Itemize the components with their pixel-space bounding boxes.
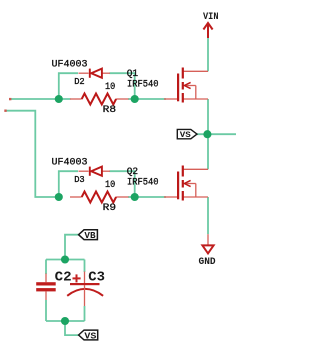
wire Q2 source to GND [207,197,209,234]
svg-text:10: 10 [105,82,115,93]
svg-text:D2: D2 [74,77,85,87]
svg-text:R8: R8 [103,105,116,116]
wire VIN to Q1 drain [207,38,209,71]
net label VB [79,230,98,241]
svg-text:10: 10 [105,180,115,191]
wire D2 branch left [59,73,78,99]
junction row1 right [131,95,139,103]
junction cap bottom [61,317,69,325]
svg-text:D3: D3 [74,175,85,185]
svg-text:R9: R9 [103,203,116,214]
svg-text:C2: C2 [55,269,72,285]
junction row1 left [55,95,63,103]
transistor Q2 [164,169,208,197]
net label VS bottom [79,330,98,341]
diode D2 [79,72,111,74]
svg-text:C3: C3 [88,269,105,285]
capacitor loop right rail [84,260,86,273]
svg-text:UF4003: UF4003 [52,158,88,169]
capacitor loop bottom rail [46,320,85,322]
power flag VIN [203,23,212,38]
svg-text:VB: VB [84,231,96,241]
wire D3 branch left [59,171,78,197]
wire VB stub [65,235,79,260]
svg-text:VS: VS [84,331,97,341]
wire row1 mid segment [128,98,166,100]
junction row2 left [55,193,63,201]
capacitor loop top rail [46,259,85,261]
ground GND symbol [202,245,213,253]
wire D3 branch right [110,171,135,197]
wire row2 feed [7,111,59,197]
wire VS stub bottom [65,321,79,335]
capacitor loop left rail [45,260,47,275]
wire end dot row1 [9,98,11,100]
wire VS node to right edge [197,133,236,135]
wire row1 left segment [10,98,71,100]
svg-text:VIN: VIN [203,12,219,23]
transistor Q1 [164,71,208,99]
svg-text:Q1: Q1 [127,69,138,80]
svg-text:GND: GND [199,257,216,268]
svg-text:Q2: Q2 [127,167,138,178]
net label VS [177,129,197,140]
svg-text:IRF540: IRF540 [127,178,159,189]
capacitor C2 [36,274,56,301]
junction row2 right [131,193,139,201]
resistor R8 [70,98,129,100]
wire VS node to Q2 drain [207,134,209,169]
svg-text:UF4003: UF4003 [52,60,88,71]
svg-text:VS: VS [180,130,191,140]
wire end dot row2 [4,110,6,112]
capacitor C3 [67,272,103,307]
ground GND pin [207,234,209,245]
wire Q1 source to VS node [207,99,209,134]
diode D3 [79,170,111,172]
svg-text:IRF540: IRF540 [127,80,159,91]
resistor R9 [70,196,129,198]
junction node VS [203,130,211,138]
wire D2 branch right [110,73,135,99]
junction cap top [61,255,69,263]
wire row2 mid segment [128,196,166,198]
